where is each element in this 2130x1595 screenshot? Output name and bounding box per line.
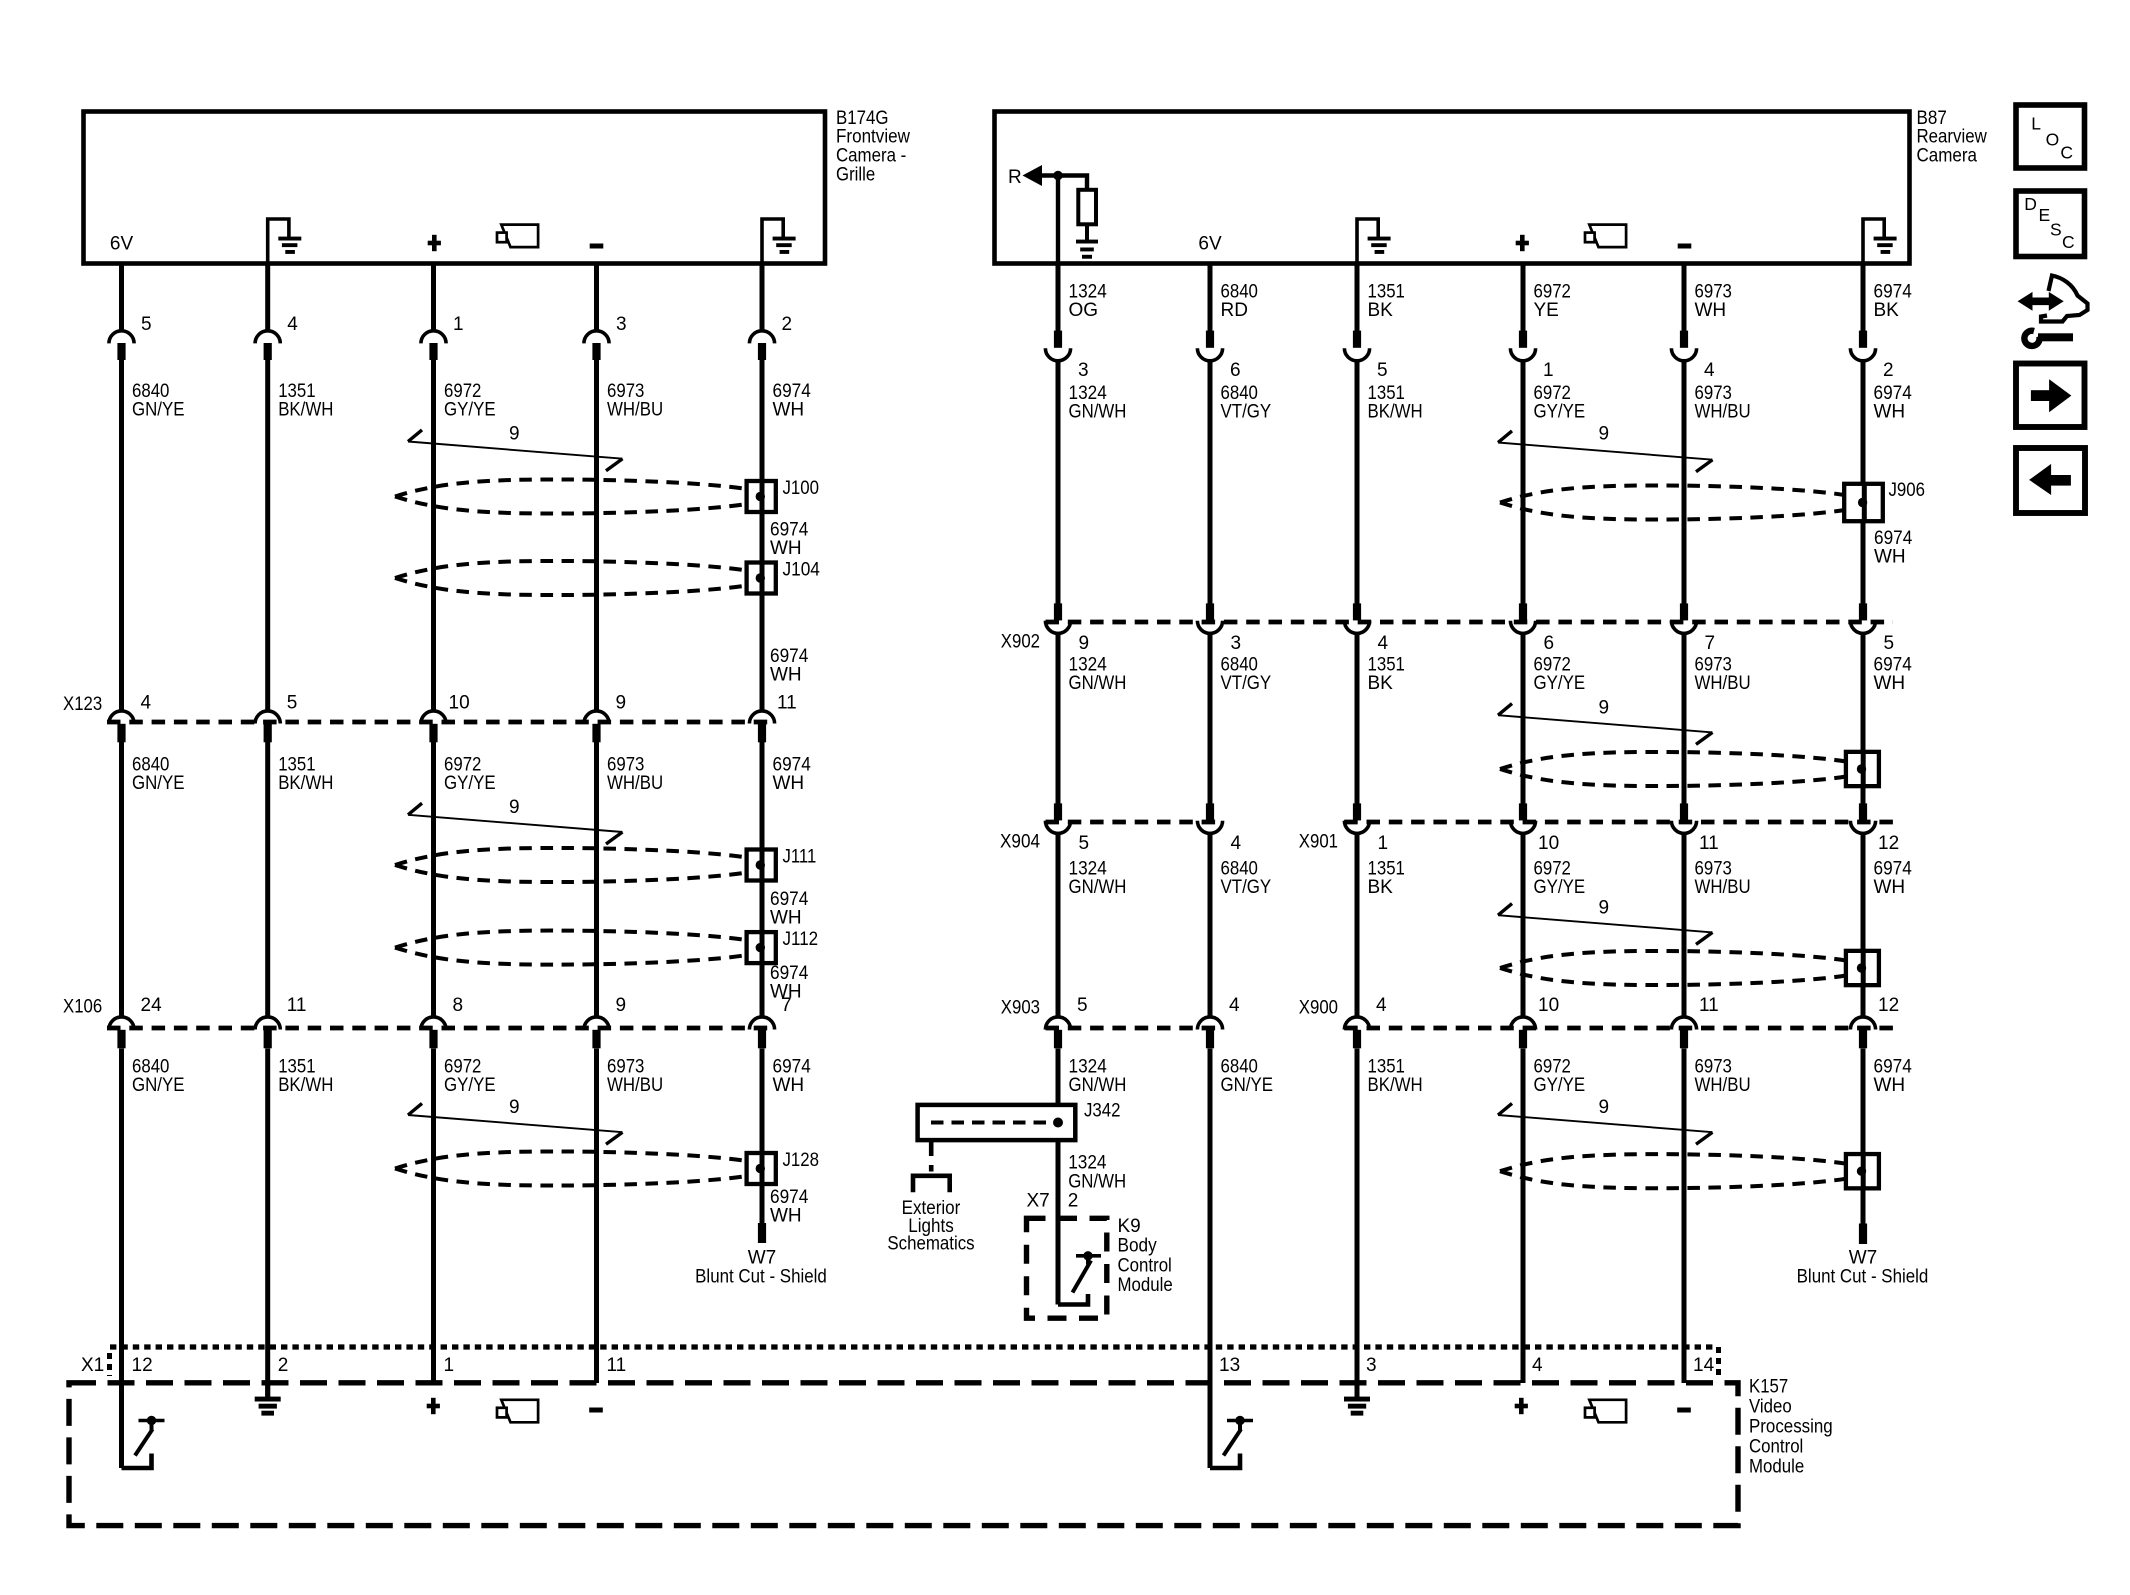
wire label 6973 WH/BU (below X903/X900): [1695, 1057, 1751, 1097]
wire 6973 WH/BU segment X900 to K157: [1682, 1049, 1687, 1384]
svg-text:WH/BU: WH/BU: [1695, 402, 1751, 423]
shield drain ellipse to J112: [395, 931, 747, 965]
wire 6974 WH segment shield junction 4 to W7: [1861, 1187, 1866, 1225]
label X901: [1299, 832, 1338, 853]
svg-text:9: 9: [509, 797, 520, 818]
svg-text:1: 1: [453, 314, 464, 335]
svg-text:K157: K157: [1749, 1376, 1788, 1397]
svg-text:4: 4: [1231, 833, 1242, 854]
wire label 1324 OG (inside B87 drop): [1069, 282, 1108, 322]
minus symbol inside B87: [1678, 244, 1692, 249]
svg-text:Schematics: Schematics: [887, 1234, 974, 1255]
pin number 9 (X902): [1079, 633, 1090, 654]
connector pin 1 of B87 (wire 6972): [1510, 266, 1535, 361]
label J128: [783, 1150, 820, 1171]
pin number 5 (B87): [1377, 360, 1388, 381]
svg-text:WH/BU: WH/BU: [607, 1075, 663, 1096]
camera icon inside B87: [1585, 225, 1626, 248]
wire label 6973 WH (inside B87 drop): [1695, 282, 1732, 322]
pin number 4 (B174G): [287, 314, 298, 335]
wire 6973 WH/BU segment X904/X901 to X903/X900 row: [1682, 833, 1687, 1016]
connector X904 pin 5: [1045, 803, 1070, 833]
pin number 12 (X1 left): [132, 1355, 153, 1376]
wire label 6974 WH between J112 and X106: [770, 963, 809, 1003]
svg-text:5: 5: [287, 693, 298, 714]
svg-text:WH: WH: [1695, 300, 1727, 321]
svg-text:2: 2: [1068, 1191, 1079, 1212]
connector X106 pin 7: [749, 1017, 774, 1048]
minus symbol inside K157 (right): [1677, 1408, 1691, 1413]
twisted pair symbol 9 (right, below B87): [1498, 431, 1713, 472]
svg-text:6V: 6V: [1198, 233, 1222, 254]
label 9 twisted pair (right 1): [1599, 423, 1610, 444]
svg-text:GN/WH: GN/WH: [1069, 673, 1127, 694]
connector X106 pin 24: [109, 1017, 134, 1048]
shield drain ellipse to shield junction 3 (right): [1500, 951, 1846, 985]
svg-text:4: 4: [1378, 633, 1389, 654]
svg-text:Blunt Cut - Shield: Blunt Cut - Shield: [695, 1266, 827, 1287]
connector X902 pin 3: [1197, 603, 1222, 633]
wire 6974 WH segment X123 to J111: [760, 742, 765, 850]
svg-text:9: 9: [1599, 697, 1610, 718]
svg-text:1: 1: [444, 1355, 455, 1376]
splice J104 (shield termination): [747, 563, 776, 594]
svg-text:VT/GY: VT/GY: [1221, 673, 1272, 694]
shield drain ellipse to J111: [395, 848, 747, 882]
wire label 1351 BK (below X902): [1368, 655, 1405, 695]
pin number 6 (X902): [1544, 633, 1555, 654]
pin number 3 (X902): [1231, 633, 1242, 654]
label B174G Frontview Camera - Grille: [836, 108, 910, 185]
X1 left delimiter dots: [107, 1353, 112, 1376]
wire label 1351 BK/WH (below X903/X900): [1368, 1057, 1423, 1097]
connector pin 5 of B174G (wire 6840): [109, 266, 134, 361]
wire 6973 WH/BU segment X106 to K157: [594, 1049, 599, 1384]
pin number 4 (X902): [1378, 633, 1389, 654]
label X1: [81, 1355, 104, 1376]
svg-text:5: 5: [1079, 833, 1090, 854]
pin number 6 (B87): [1230, 360, 1241, 381]
svg-text:7: 7: [1705, 633, 1716, 654]
label J112: [783, 929, 819, 950]
wire 1324 GN/WH segment X902 to X904/X901 row: [1056, 633, 1061, 804]
wire 1351 BK segment B87 to X902: [1355, 361, 1360, 604]
svg-text:Module: Module: [1749, 1456, 1804, 1477]
wire label 1351 BK/WH (below X106): [278, 1057, 333, 1097]
svg-text:X903: X903: [1001, 998, 1040, 1019]
wire 6840 GN/YE segment X903 to K157 switch: [1208, 1049, 1213, 1469]
wire 6840 GN/YE segment X123 to X106: [119, 742, 124, 1016]
wire label 6972 GY/YE (below X904/X901): [1534, 859, 1586, 899]
twisted pair symbol 9 (left, below B174G): [408, 430, 623, 471]
wire 1351 BK/WH segment X900 to K157 ground: [1355, 1049, 1360, 1398]
svg-text:J906: J906: [1889, 480, 1926, 501]
splice J111 (shield termination): [747, 850, 776, 881]
svg-text:GN/YE: GN/YE: [132, 400, 185, 421]
svg-text:9: 9: [509, 423, 520, 444]
svg-text:10: 10: [1538, 995, 1559, 1016]
connector pin 5 of B87 (wire 1351): [1344, 266, 1369, 361]
camera icon inside K157 (right): [1585, 1400, 1626, 1423]
label Blunt Cut - Shield (right): [1797, 1266, 1929, 1287]
svg-text:WH: WH: [770, 538, 802, 559]
svg-text:8: 8: [453, 995, 464, 1016]
svg-text:11: 11: [287, 995, 307, 1016]
svg-text:GN/WH: GN/WH: [1068, 1171, 1126, 1192]
twisted pair symbol 9 (right, below X902): [1498, 704, 1713, 745]
wire 6972 GY/YE segment X904/X901 to X903/X900 row: [1521, 833, 1526, 1016]
pin number 14 (X1 right): [1693, 1355, 1715, 1376]
svg-text:9: 9: [616, 995, 627, 1016]
svg-text:BK/WH: BK/WH: [1368, 402, 1423, 423]
svg-text:X900: X900: [1299, 998, 1338, 1019]
pin number 9 (X123): [616, 693, 627, 714]
connector X900 pin 10: [1510, 1017, 1535, 1048]
pin number 1 (X1 left): [444, 1355, 455, 1376]
label X106: [63, 997, 102, 1018]
svg-text:VT/GY: VT/GY: [1221, 402, 1272, 423]
svg-text:WH: WH: [770, 665, 802, 686]
connector X903 dashed line: [1046, 1026, 1223, 1031]
svg-text:WH: WH: [1874, 877, 1906, 898]
wire 6973 WH/BU segment B174G to X123: [594, 360, 599, 710]
wire label 6973 WH/BU (below X902): [1695, 655, 1751, 695]
wire 1351 BK segment X902 to X904/X901 row: [1355, 633, 1360, 804]
pin number 4 (X903): [1229, 995, 1240, 1016]
camera module B174G box: [84, 112, 826, 264]
svg-text:VT/GY: VT/GY: [1221, 877, 1272, 898]
wire 6972 GY/YE segment X123 to X106: [431, 742, 436, 1016]
plus symbol inside B174G: [428, 235, 441, 251]
wire 6974 WH segment X901 to shield junction 3: [1861, 833, 1866, 952]
wire label 6972 GY/YE (below B174G): [444, 381, 496, 421]
svg-text:C: C: [2060, 143, 2073, 163]
svg-text:GY/YE: GY/YE: [444, 773, 496, 794]
wire 6974 WH segment J112 to X106: [760, 962, 765, 1016]
svg-text:S: S: [2050, 219, 2062, 239]
svg-text:10: 10: [449, 693, 470, 714]
module K157 dashed box: [69, 1383, 1738, 1526]
svg-text:GN/WH: GN/WH: [1069, 402, 1127, 423]
svg-text:3: 3: [1078, 360, 1089, 381]
svg-text:WH: WH: [1874, 402, 1906, 423]
wire label 6973 WH/BU (below X123): [607, 755, 663, 795]
svg-text:10: 10: [1538, 833, 1559, 854]
wire label 1351 BK/WH (below B87): [1368, 383, 1423, 423]
wire 6972 GY/YE segment X106 to K157: [431, 1049, 436, 1384]
label X900: [1299, 998, 1338, 1019]
svg-text:X901: X901: [1299, 832, 1338, 853]
wire label 6840 RD (inside B87 drop): [1221, 282, 1258, 322]
connector X901 pin 12: [1850, 803, 1875, 833]
label J906: [1889, 480, 1926, 501]
pin number 10 (X900): [1538, 995, 1559, 1016]
svg-text:L: L: [2031, 114, 2041, 134]
connector X123 pin 11: [749, 711, 774, 742]
switch inside K157 (right): [1210, 1416, 1253, 1468]
svg-text:11: 11: [1699, 833, 1719, 854]
wire label 6974 WH between J128 and W7: [770, 1187, 809, 1227]
pin number 13 (X1 right): [1219, 1355, 1240, 1376]
connector X900 dashed line: [1344, 1026, 1893, 1031]
ground symbol inside B87 pin 2: [1863, 219, 1897, 266]
connector pin 2 of B174G (wire 6974): [749, 266, 774, 361]
svg-text:Control: Control: [1118, 1255, 1172, 1276]
svg-text:BK: BK: [1368, 673, 1394, 694]
wire 1351 BK/WH segment B174G to X123: [265, 360, 270, 710]
wire label 6972 GY/YE (below B87): [1534, 383, 1586, 423]
wire label 6973 WH/BU (below B87): [1695, 383, 1751, 423]
svg-text:O: O: [2046, 129, 2060, 149]
svg-text:12: 12: [132, 1355, 153, 1376]
svg-text:Camera: Camera: [1917, 146, 1978, 167]
svg-text:R: R: [1008, 167, 1022, 188]
wire 6840 VT/GY segment B87 to X902: [1208, 361, 1213, 604]
label X123: [63, 694, 102, 715]
wire 6840 VT/GY segment X902 to X904/X901 row: [1208, 633, 1213, 804]
connector pin 2 of B87 (wire 6974): [1850, 266, 1875, 361]
svg-text:GY/YE: GY/YE: [444, 400, 496, 421]
svg-text:WH: WH: [770, 908, 802, 929]
svg-text:11: 11: [607, 1355, 627, 1376]
label J342: [1084, 1100, 1121, 1121]
wire label 6973 WH/BU (below X904/X901): [1695, 859, 1751, 899]
wire 1351 BK/WH segment X106 to K157 ground: [265, 1049, 270, 1398]
ground symbol below resistor (B87): [1076, 240, 1098, 259]
splice J128 (shield termination): [747, 1153, 776, 1184]
label 9 twisted pair (left 2): [509, 797, 520, 818]
wire label 6972 GY/YE (below X123): [444, 755, 496, 795]
wire 1324 GN/WH segment X903 to J342: [1056, 1049, 1061, 1107]
connector pin 4 of B174G (wire 1351): [255, 266, 280, 361]
svg-text:C: C: [2062, 232, 2075, 252]
connector X123 pin 9: [584, 711, 609, 742]
connector X106 pin 8: [421, 1017, 446, 1048]
svg-text:6: 6: [1230, 360, 1241, 381]
label 9 twisted pair (right 2): [1599, 697, 1610, 718]
splice shield termination box (right 4): [1846, 1154, 1879, 1188]
svg-text:11: 11: [777, 693, 797, 714]
svg-text:BK: BK: [1368, 877, 1394, 898]
plus symbol inside B87: [1516, 235, 1529, 251]
splice J100 (shield termination): [747, 481, 776, 512]
svg-text:4: 4: [141, 693, 152, 714]
svg-text:12: 12: [1878, 995, 1899, 1016]
connector X901 dashed line: [1344, 820, 1893, 825]
svg-text:WH/BU: WH/BU: [1695, 673, 1751, 694]
svg-text:6: 6: [1544, 633, 1555, 654]
svg-text:Module: Module: [1118, 1275, 1173, 1296]
svg-text:J128: J128: [783, 1150, 820, 1171]
label J100: [783, 478, 820, 499]
svg-text:12: 12: [1878, 833, 1899, 854]
pin number 11 (X1 left): [607, 1355, 627, 1376]
svg-text:2: 2: [278, 1355, 289, 1376]
svg-text:GY/YE: GY/YE: [1534, 673, 1586, 694]
twisted pair symbol 9 (right, below X900): [1498, 1103, 1713, 1144]
pin number 5 (X902): [1884, 633, 1895, 654]
svg-text:GY/YE: GY/YE: [1534, 1075, 1586, 1096]
junction dot R (B87): [1053, 171, 1062, 180]
wire 6840 GN/YE segment X106 to K157: [119, 1049, 124, 1469]
connector X1 dotted line: [110, 1344, 1713, 1349]
svg-text:Grille: Grille: [836, 164, 875, 185]
shield drain ellipse to J100: [395, 479, 747, 513]
plus symbol inside K157 (left): [427, 1398, 440, 1414]
pin number 10 (X123): [449, 693, 470, 714]
wire label 6974 WH between J111 and J112: [770, 889, 809, 929]
wire 6974 WH segment X106 to J128: [760, 1049, 765, 1155]
wire 6973 WH/BU segment X902 to X904/X901 row: [1682, 633, 1687, 804]
svg-text:4: 4: [1704, 360, 1715, 381]
svg-text:K9: K9: [1118, 1216, 1141, 1237]
wire 6974 WH segment J906 to X902: [1861, 521, 1866, 605]
svg-text:13: 13: [1219, 1355, 1240, 1376]
camera module B87 box: [995, 112, 1910, 264]
svg-text:BK/WH: BK/WH: [278, 400, 333, 421]
ground symbol inside B174G pin 2: [762, 219, 796, 266]
connector X902 pin 7: [1671, 603, 1696, 633]
wire label 6974 WH between J100 and J104: [770, 520, 809, 560]
splice J906 (shield termination): [1844, 484, 1883, 521]
connector X900 pin 12: [1850, 1017, 1875, 1048]
wire 6974 WH segment J128 to W7: [760, 1183, 765, 1224]
svg-text:6V: 6V: [110, 233, 134, 254]
icon button previous (left arrow): [2016, 448, 2085, 513]
wire label 6974 WH (below X903/X900): [1874, 1057, 1913, 1097]
arrow R (B87): [1024, 166, 1042, 185]
wire 6973 WH/BU segment X123 to X106: [594, 742, 599, 1016]
X1 right delimiter dots: [1716, 1347, 1721, 1375]
shield drain ellipse to J128: [395, 1151, 747, 1185]
svg-text:YE: YE: [1534, 300, 1559, 321]
shield drain ellipse to shield junction 4 (right): [1500, 1154, 1846, 1188]
pin number 4 (X1 right): [1532, 1355, 1543, 1376]
label X7: [1027, 1191, 1050, 1212]
connector X902 pin 4: [1344, 603, 1369, 633]
wire 6974 WH segment shield junction 3 to X900: [1861, 984, 1866, 1016]
wire label 1324 GN/WH between J342 and X7: [1068, 1153, 1126, 1193]
connector X900 pin 4: [1344, 1017, 1369, 1048]
connector X904 dashed line: [1046, 820, 1223, 825]
label J104: [783, 560, 821, 581]
wire 6972 GY/YE segment B174G to X123: [431, 360, 436, 710]
junction dot J342: [1053, 1118, 1063, 1128]
wire label 6974 WH (below X904/X901): [1874, 859, 1913, 899]
wire 6974 WH segment B174G to J100: [760, 360, 765, 482]
svg-text:2: 2: [1883, 360, 1894, 381]
wire 6972 GY/YE segment X900 to K157: [1521, 1049, 1526, 1384]
label B87 Rearview Camera: [1917, 108, 1988, 167]
wire label 6973 WH/BU (below X106): [607, 1057, 663, 1097]
svg-text:9: 9: [1599, 1097, 1610, 1118]
svg-text:WH/BU: WH/BU: [607, 773, 663, 794]
pin number 4 (X123): [141, 693, 152, 714]
svg-text:BK: BK: [1368, 300, 1394, 321]
connector X900 pin 11: [1671, 1017, 1696, 1048]
blunt cut W7 (right shield end): [1859, 1224, 1867, 1245]
label W7 (right): [1849, 1248, 1878, 1269]
pin number 5 (X123): [287, 693, 298, 714]
connector X123 pin 5: [255, 711, 280, 742]
wire 1324 OG from R junction to B87 pin 3: [1056, 176, 1060, 266]
svg-text:Processing: Processing: [1749, 1416, 1833, 1437]
svg-text:D: D: [2024, 194, 2037, 214]
connector X902 pin 5: [1850, 603, 1875, 633]
pin number 9 (X106): [616, 995, 627, 1016]
wire 6972 GY/YE segment X902 to X904/X901 row: [1521, 633, 1526, 804]
svg-text:9: 9: [1599, 423, 1610, 444]
svg-text:X902: X902: [1001, 632, 1040, 653]
pin number 1 (B87): [1543, 360, 1554, 381]
pin number 4 (X904): [1231, 833, 1242, 854]
wire label 6974 WH (below X106): [773, 1057, 812, 1097]
dashed stub to Exterior Lights: [929, 1139, 934, 1172]
connector X904 pin 4: [1197, 803, 1222, 833]
label 9 twisted pair (left 1): [509, 423, 520, 444]
minus symbol inside K157 (left): [589, 1408, 603, 1413]
svg-text:GY/YE: GY/YE: [444, 1075, 496, 1096]
wire 6840 VT/GY segment X904/X901 to X903/X900 row: [1208, 833, 1213, 1016]
ground symbol inside B174G pin 4: [268, 219, 302, 266]
label X903: [1001, 998, 1040, 1019]
splice pack J342 internal dashed bus: [931, 1121, 1052, 1125]
wire 6974 WH segment X900 to shield junction 4: [1861, 1049, 1866, 1156]
svg-text:GY/YE: GY/YE: [1534, 877, 1586, 898]
shield drain ellipse to shield junction 2 (right): [1500, 752, 1846, 786]
twisted pair symbol 9 (left, below X106): [408, 1103, 623, 1144]
ground symbol inside B87 pin 5: [1357, 219, 1391, 266]
svg-text:1: 1: [1378, 833, 1389, 854]
splice J112 (shield termination): [747, 932, 776, 963]
wire label 6840 VT/GY (below X902): [1221, 655, 1272, 695]
splice shield termination box (right 2): [1846, 752, 1879, 786]
svg-text:Blunt Cut - Shield: Blunt Cut - Shield: [1797, 1266, 1929, 1287]
connector X106 pin 11: [255, 1017, 280, 1048]
svg-text:X7: X7: [1027, 1191, 1050, 1212]
wire label 1324 GN/WH (below B87): [1069, 383, 1127, 423]
icon button DESC: [2016, 191, 2085, 257]
switch inside K9: [1058, 1251, 1101, 1304]
minus symbol inside B174G: [590, 244, 604, 249]
connector X123 pin 10: [421, 711, 446, 742]
connector X901 pin 1: [1344, 803, 1369, 833]
connector pin 4 of B87 (wire 6973): [1671, 266, 1696, 361]
svg-text:WH/BU: WH/BU: [1695, 1075, 1751, 1096]
pin number 3 (B174G): [616, 314, 627, 335]
connector X902 pin 6: [1510, 603, 1535, 633]
wire 6974 WH segment J104 to X123: [760, 592, 765, 710]
blunt cut W7 (left shield end): [758, 1223, 766, 1243]
svg-text:9: 9: [509, 1097, 520, 1118]
wire label 6974 WH (below X902): [1874, 655, 1913, 695]
svg-text:3: 3: [1231, 633, 1242, 654]
twisted pair symbol 9 (left, below X123): [408, 803, 623, 844]
pin number 7 (X902): [1705, 633, 1716, 654]
svg-text:5: 5: [1377, 360, 1388, 381]
svg-text:GY/YE: GY/YE: [1534, 402, 1586, 423]
svg-text:4: 4: [287, 314, 298, 335]
svg-text:J111: J111: [783, 847, 817, 868]
splice pack J342 box: [918, 1105, 1076, 1140]
wire 6974 WH segment B87 to J906: [1861, 361, 1866, 485]
pin number 11 (X106): [287, 995, 307, 1016]
wire label 6974 WH (below X123): [773, 755, 812, 795]
svg-text:Video: Video: [1749, 1396, 1792, 1417]
svg-text:3: 3: [616, 314, 627, 335]
svg-text:E: E: [2039, 205, 2051, 225]
svg-text:4: 4: [1376, 995, 1387, 1016]
